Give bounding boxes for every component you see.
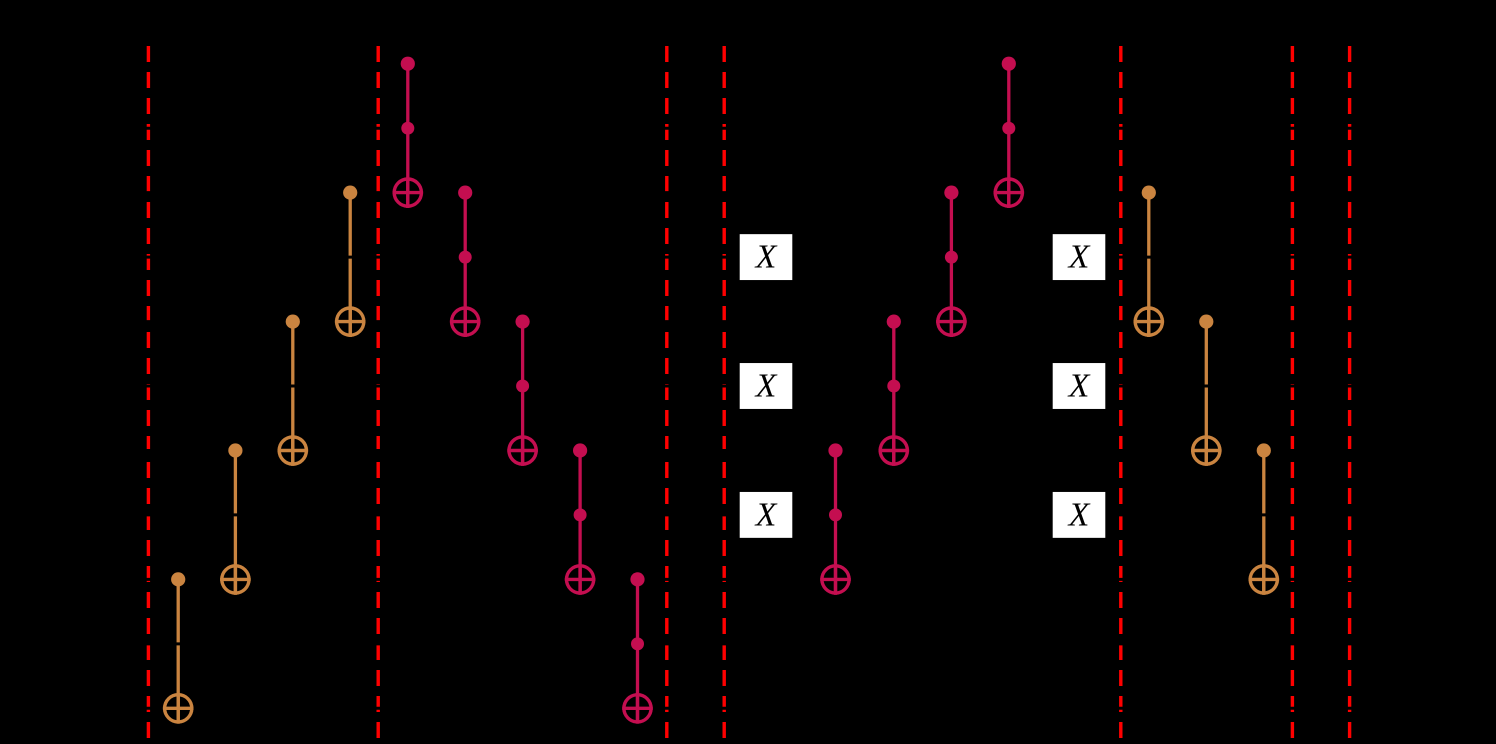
- node CNOT Q7 target: [1249, 564, 1280, 595]
- X gate G5: [1053, 363, 1106, 409]
- node CNOT Q4 target: [335, 306, 366, 337]
- node CNOT Q3 target: [278, 435, 309, 466]
- wire CNOT Q2 vertical line: [234, 451, 237, 595]
- svg-text:X: X: [1067, 496, 1091, 533]
- svg-text:X: X: [754, 496, 778, 533]
- node Toffoli T1 target: [393, 177, 424, 208]
- wire Toffoli T7 vertical line: [892, 322, 895, 466]
- barrier 7: [1348, 46, 1351, 738]
- node CNOT Q7 control dot: [1257, 443, 1271, 457]
- node CNOT Q1 control dot: [171, 572, 185, 586]
- barrier 2: [377, 46, 380, 738]
- node Toffoli T3 target: [507, 435, 538, 466]
- node CNOT Q6 target: [1191, 435, 1222, 466]
- wire Toffoli T2 vertical line: [464, 193, 467, 337]
- wire qubit q2: [120, 127, 1460, 130]
- node Toffoli T9 control dot 2: [1002, 122, 1015, 135]
- node CNOT Q6 control dot: [1199, 315, 1213, 329]
- wire Toffoli T4 vertical line: [578, 451, 581, 595]
- wire CNOT Q4 vertical line: [349, 193, 352, 337]
- node CNOT Q2 control dot: [228, 443, 242, 457]
- node Toffoli T6 control dot 1: [828, 443, 842, 457]
- barrier 5: [1119, 46, 1122, 738]
- wire qubit q11: [120, 707, 1460, 710]
- node Toffoli T3 control dot 1: [516, 315, 530, 329]
- node Toffoli T9 target: [994, 177, 1025, 208]
- node Toffoli T8 control dot 1: [944, 186, 958, 200]
- node CNOT Q5 target: [1134, 306, 1165, 337]
- wire qubit q5: [120, 320, 1460, 323]
- wire Toffoli T9 vertical line: [1007, 64, 1010, 208]
- wire qubit q8: [120, 513, 1460, 516]
- wire qubit q9: [120, 578, 1460, 581]
- wire qubit q1: [120, 62, 1460, 65]
- wire CNOT Q5 vertical line: [1147, 193, 1150, 337]
- svg-text:X: X: [1067, 368, 1091, 405]
- wire CNOT Q1 vertical line: [177, 579, 180, 723]
- svg-text:X: X: [1067, 239, 1091, 276]
- wire Toffoli T3 vertical line: [521, 322, 524, 466]
- node CNOT Q4 control dot: [343, 186, 357, 200]
- wire CNOT Q3 vertical line: [291, 322, 294, 466]
- node Toffoli T8 control dot 2: [945, 251, 958, 264]
- node Toffoli T5 control dot 2: [631, 637, 644, 650]
- node Toffoli T9 control dot 1: [1002, 57, 1016, 71]
- wire CNOT Q6 vertical line: [1205, 322, 1208, 466]
- X gate G1: [740, 234, 793, 280]
- node Toffoli T4 control dot 1: [573, 443, 587, 457]
- barrier 6: [1291, 46, 1294, 738]
- node CNOT Q2 target: [220, 564, 251, 595]
- barrier 4: [723, 46, 726, 738]
- X gate G2: [740, 363, 793, 409]
- node Toffoli T5 control dot 1: [630, 572, 644, 586]
- wire qubit q6: [120, 385, 1460, 388]
- wire Toffoli T5 vertical line: [636, 579, 639, 723]
- node CNOT Q5 control dot: [1142, 186, 1156, 200]
- wire qubit q3: [120, 191, 1460, 194]
- wire Toffoli T8 vertical line: [950, 193, 953, 337]
- node Toffoli T3 control dot 2: [516, 380, 529, 393]
- svg-text:X: X: [754, 239, 778, 276]
- barrier 3: [665, 46, 668, 738]
- node Toffoli T7 control dot 2: [887, 380, 900, 393]
- node CNOT Q1 target: [163, 693, 194, 724]
- node Toffoli T2 control dot 1: [458, 186, 472, 200]
- node Toffoli T6 control dot 2: [829, 508, 842, 521]
- node Toffoli T7 control dot 1: [887, 315, 901, 329]
- wire qubit q7: [120, 449, 1460, 452]
- node Toffoli T4 target: [565, 564, 596, 595]
- wire qubit q10: [120, 642, 1460, 645]
- X gate G6: [1053, 492, 1106, 538]
- node Toffoli T5 target: [622, 693, 653, 724]
- X gate G3: [740, 492, 793, 538]
- svg-text:X: X: [754, 368, 778, 405]
- node Toffoli T8 target: [936, 306, 967, 337]
- node CNOT Q3 control dot: [286, 315, 300, 329]
- wire Toffoli T6 vertical line: [834, 451, 837, 595]
- X gate G4: [1053, 234, 1106, 280]
- wire qubit q4: [120, 256, 1460, 259]
- wire CNOT Q7 vertical line: [1262, 451, 1265, 595]
- barrier 1: [147, 46, 150, 738]
- node Toffoli T6 target: [820, 564, 851, 595]
- node Toffoli T4 control dot 2: [574, 508, 587, 521]
- node Toffoli T7 target: [879, 435, 910, 466]
- wire Toffoli T1 vertical line: [406, 64, 409, 208]
- node Toffoli T1 control dot 2: [401, 122, 414, 135]
- node Toffoli T1 control dot 1: [401, 57, 415, 71]
- node Toffoli T2 control dot 2: [459, 251, 472, 264]
- node Toffoli T2 target: [450, 306, 481, 337]
